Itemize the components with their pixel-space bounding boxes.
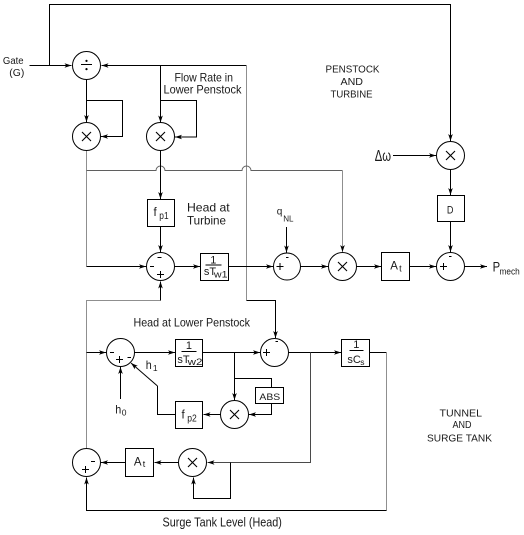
svg-text:A: A bbox=[134, 456, 142, 468]
svg-text:sC: sC bbox=[347, 354, 361, 366]
svg-text:AND: AND bbox=[341, 76, 364, 88]
svg-text:(G): (G) bbox=[9, 68, 24, 79]
svg-text:TURBINE: TURBINE bbox=[331, 88, 373, 100]
svg-text:mech: mech bbox=[500, 267, 520, 277]
svg-text:Lower Penstock: Lower Penstock bbox=[164, 83, 243, 97]
svg-text:1: 1 bbox=[186, 340, 192, 352]
svg-text:h: h bbox=[115, 403, 121, 417]
svg-text:1: 1 bbox=[153, 363, 158, 373]
svg-text:1: 1 bbox=[353, 339, 359, 351]
svg-text:Surge Tank Level (Head): Surge Tank Level (Head) bbox=[163, 516, 282, 530]
svg-text:A: A bbox=[390, 261, 398, 273]
svg-text:s: s bbox=[360, 357, 364, 367]
svg-text:p2: p2 bbox=[187, 413, 197, 424]
svg-text:1: 1 bbox=[210, 255, 216, 267]
svg-text:p1: p1 bbox=[159, 211, 169, 222]
svg-text:Turbine: Turbine bbox=[187, 213, 226, 227]
svg-text:0: 0 bbox=[122, 408, 127, 418]
svg-text:q: q bbox=[277, 207, 283, 218]
svg-text:SURGE TANK: SURGE TANK bbox=[427, 432, 492, 444]
svg-text:AND: AND bbox=[453, 419, 472, 431]
svg-text:NL: NL bbox=[283, 213, 294, 223]
svg-text:TUNNEL: TUNNEL bbox=[440, 407, 483, 419]
svg-text:Head at Lower Penstock: Head at Lower Penstock bbox=[134, 316, 251, 330]
svg-text:w1: w1 bbox=[213, 269, 228, 279]
svg-text:D: D bbox=[447, 205, 454, 217]
svg-text:Head at: Head at bbox=[187, 200, 230, 214]
svg-text:h: h bbox=[146, 358, 152, 372]
svg-text:Gate: Gate bbox=[3, 56, 24, 67]
svg-text:Δω: Δω bbox=[375, 148, 391, 165]
svg-text:PENSTOCK: PENSTOCK bbox=[326, 63, 380, 75]
svg-text:w2: w2 bbox=[186, 357, 202, 367]
svg-text:ABS: ABS bbox=[259, 392, 280, 403]
